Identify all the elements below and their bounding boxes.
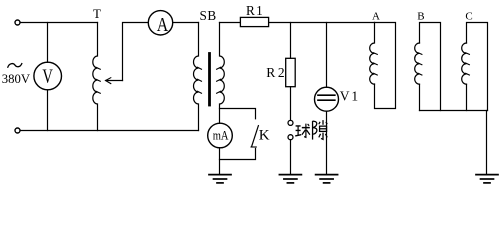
svg-text:SB: SB — [200, 8, 217, 23]
ground below mA — [209, 175, 231, 183]
wire ammeter to SB — [173, 22, 199, 24]
ground below C — [476, 175, 498, 183]
wire R1 to winding A — [269, 22, 375, 24]
sphere gap upper ball — [288, 120, 293, 125]
svg-text:V1: V1 — [340, 88, 360, 103]
wire mA bottom to ground — [219, 148, 221, 174]
ground below V1 — [316, 175, 338, 183]
svg-text:K: K — [259, 128, 270, 144]
svg-text:mA: mA — [213, 128, 229, 143]
svg-text:T: T — [93, 6, 101, 21]
terminal bottom-left — [15, 128, 20, 133]
autotransformer T winding — [93, 23, 98, 131]
svg-text:R 2: R 2 — [266, 65, 284, 80]
AC tilde symbol — [8, 64, 22, 68]
T coil cusp hooks — [96, 67, 100, 93]
resistor R1 — [240, 17, 268, 26]
voltmeter V — [34, 62, 62, 90]
transformer SB primary winding — [194, 23, 199, 131]
switch K hinge tick — [251, 146, 256, 148]
terminal top-left — [15, 20, 20, 25]
winding A — [375, 23, 396, 109]
svg-text:A: A — [157, 14, 169, 36]
label 球 hand-drawn — [295, 124, 310, 138]
resistor R2 — [286, 58, 296, 86]
wire V1 to ground — [326, 111, 328, 174]
wire R2 to sphere gap — [290, 87, 292, 121]
SB secondary cusp hooks — [217, 67, 221, 93]
wire switch top — [220, 109, 256, 119]
wire top-left rail — [20, 22, 97, 24]
svg-text:B: B — [417, 11, 424, 23]
SB primary cusp hooks — [198, 67, 202, 93]
wire voltmeter branch top — [47, 23, 49, 63]
wire C to ground — [486, 111, 488, 175]
svg-text:V: V — [42, 66, 53, 88]
svg-text:A: A — [372, 11, 380, 23]
wire R2 branch — [290, 23, 292, 59]
svg-text:C: C — [465, 11, 472, 23]
winding C — [466, 84, 468, 110]
wire tap riser — [123, 23, 149, 81]
wire V1 branch — [326, 23, 328, 88]
transformer SB secondary winding — [220, 23, 225, 124]
sphere gap lower ball — [288, 135, 293, 140]
switch K blade — [252, 126, 259, 147]
electrostatic voltmeter V1 — [315, 87, 339, 111]
svg-text:R1: R1 — [246, 3, 264, 18]
SB core bar — [208, 54, 211, 106]
svg-text:380V: 380V — [2, 72, 31, 86]
wire B C bottom link — [420, 110, 488, 112]
wire voltmeter branch bottom — [47, 90, 49, 131]
milliammeter mA — [208, 123, 233, 148]
tap arrow of T — [106, 80, 123, 82]
wire sphere gap to ground — [290, 140, 292, 174]
label 隙 hand-drawn — [313, 120, 328, 139]
ammeter A — [148, 11, 172, 35]
wire SB secondary top to R1 — [220, 22, 241, 24]
ground below sphere gap — [279, 175, 301, 183]
wire switch bottom — [220, 149, 256, 160]
wire bottom rail — [20, 130, 198, 132]
winding B — [419, 84, 421, 110]
